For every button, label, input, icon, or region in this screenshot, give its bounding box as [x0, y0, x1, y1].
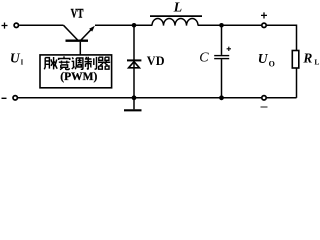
- svg-text:VD: VD: [147, 54, 165, 68]
- svg-text:U: U: [258, 51, 269, 66]
- svg-text:I: I: [21, 59, 24, 66]
- svg-text:(PWM): (PWM): [60, 71, 97, 83]
- svg-text:R: R: [302, 51, 312, 66]
- svg-text:C: C: [199, 51, 209, 66]
- svg-text:L: L: [314, 58, 319, 67]
- svg-text:O: O: [269, 60, 275, 69]
- svg-text:VT: VT: [71, 7, 84, 21]
- svg-text:U: U: [10, 50, 21, 65]
- svg-text:L: L: [173, 0, 183, 15]
